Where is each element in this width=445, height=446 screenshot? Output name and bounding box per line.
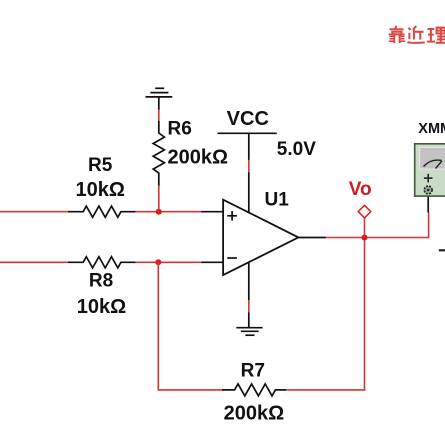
wire: R7 to feedback vertical right <box>286 389 365 391</box>
multimeter XMM1 lead <box>427 194 429 213</box>
char li <box>428 28 435 30</box>
svg-text:R7: R7 <box>241 361 265 382</box>
wire: op-amp VCC pin <box>248 172 250 213</box>
wire: output to multimeter corner <box>326 237 429 239</box>
wire: top input from left edge to R5 <box>0 211 69 213</box>
svg-text:200kΩ: 200kΩ <box>168 147 229 169</box>
multimeter XMM1 <box>415 144 445 196</box>
wire: feedback vertical left <box>157 262 159 390</box>
svg-text:U1: U1 <box>265 189 290 210</box>
wire: op-amp + input lead <box>201 211 223 213</box>
svg-text:Vo: Vo <box>349 179 372 200</box>
svg-text:5.0V: 5.0V <box>277 139 316 160</box>
probe Vo diamond <box>358 205 371 218</box>
ground: top ground above R6 <box>146 88 173 110</box>
wire: bottom input from left edge to R8 <box>0 261 69 263</box>
wire: feedback bottom left to R7 <box>158 389 223 391</box>
ground: below op-amp <box>236 313 262 336</box>
annotation: Chinese text (kao jin li) <box>389 26 445 43</box>
terminal minus dash at right edge <box>439 249 445 251</box>
wire: feedback vertical right up to output node <box>364 238 366 391</box>
svg-text:R8: R8 <box>89 270 113 291</box>
wire: ground to R6 <box>158 110 160 122</box>
char kao <box>395 26 397 29</box>
wire: VCC to op-amp <box>248 160 250 173</box>
wire: VEE pin to ground <box>248 300 250 313</box>
svg-text:XMM1: XMM1 <box>418 121 445 137</box>
svg-text:R5: R5 <box>88 155 113 176</box>
wire: op-amp output lead <box>298 237 326 239</box>
resistor R7 <box>222 384 286 396</box>
svg-text:R6: R6 <box>168 119 192 140</box>
op-amp U1 <box>223 200 298 275</box>
wire: op-amp - input lead <box>201 261 223 263</box>
svg-text:10kΩ: 10kΩ <box>75 179 124 201</box>
resistor R6 <box>153 121 164 186</box>
svg-text:VCC: VCC <box>227 108 269 130</box>
wire: R6 to top node <box>158 186 160 212</box>
junction: node at R8/feedback <box>155 259 161 265</box>
op-amp - marker <box>227 257 237 259</box>
power VCC symbol <box>218 133 277 160</box>
junction: output node <box>362 235 368 241</box>
wire: up to multimeter <box>428 212 430 238</box>
svg-text:200kΩ: 200kΩ <box>224 402 285 424</box>
wire: op-amp VEE pin <box>248 262 250 301</box>
svg-text:10kΩ: 10kΩ <box>77 296 126 318</box>
junction: node at R5/R6 <box>156 209 162 215</box>
wire: probe stem <box>364 218 366 238</box>
op-amp + marker <box>227 211 237 221</box>
resistor R5 <box>68 206 136 217</box>
wire: R5 to op-amp + input <box>136 211 202 213</box>
wire: R8 to op-amp - input <box>136 261 202 263</box>
resistor R8 <box>68 257 136 268</box>
char jin <box>409 28 411 30</box>
